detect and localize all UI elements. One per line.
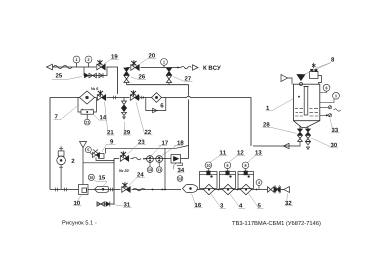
valve 32 (x-valve small): [274, 185, 280, 194]
caption: title: [232, 221, 320, 226]
hose (wavy) top-left: [53, 66, 72, 69]
filter 4 (diamond): [223, 184, 234, 195]
drain valve chain right (30): [306, 129, 311, 150]
filter 5 (diamond): [241, 184, 252, 195]
gauge under pump 18: [156, 162, 162, 172]
hose (wavy) before K VSU: [181, 66, 191, 69]
gauge 1: [73, 56, 80, 67]
check valve (open bowtie) outlet: [268, 187, 274, 192]
valve 23: [120, 151, 128, 161]
wire: bottom main line y=189.5: [50, 189, 181, 191]
canister 12: [220, 171, 236, 189]
valve 21 (x-valve on main line): [97, 90, 105, 100]
labels 17 18: [152, 141, 168, 156]
label 2: [72, 159, 75, 163]
valve 24 on bottom line: [122, 182, 130, 192]
labels 16 3 4 5: [192, 194, 203, 208]
label 8: [303, 57, 334, 75]
gauge on K VSU line: [161, 59, 168, 68]
junction dot: [177, 67, 179, 69]
drain valve chain left (28): [253, 129, 302, 147]
label 7: [54, 105, 80, 120]
valve 19: [97, 60, 105, 70]
valve 20: [131, 60, 139, 70]
text K VSU: [203, 66, 220, 70]
bypass check line below (label 25 chain): [84, 67, 107, 78]
fitting lower (to label 33): [320, 114, 332, 117]
label 32: [285, 194, 294, 206]
gauge (circled) below filter box: [84, 119, 90, 125]
label 6: [161, 103, 164, 107]
label 34 + gauge 14: [177, 168, 185, 182]
label 1 (tank): [266, 99, 294, 111]
junction ticks right of pump: [87, 188, 113, 192]
label 20: [140, 53, 157, 63]
tank standpipe: [303, 87, 308, 116]
pump 18: [156, 156, 163, 163]
flow arrow to K VSU: [193, 65, 199, 70]
hose (wavy) after valve 23: [133, 157, 141, 160]
labels 21 29 22: [105, 102, 115, 136]
wire: main line y=97.5: [50, 96, 251, 146]
filter 7 (diamond with bypass): [78, 91, 97, 112]
wire: upper link line y=148.3: [106, 146, 189, 154]
wire: fill line y=162.8: [83, 162, 114, 164]
canister 11: [200, 171, 218, 189]
flow arrow (open, pointing left) at left end: [47, 64, 53, 70]
wire: K VSU line: [127, 67, 182, 69]
wire: vertical x=114: [113, 159, 115, 205]
label 28: [263, 122, 298, 133]
caption: figure number: [62, 221, 96, 226]
gauge under pump 17: [147, 162, 153, 172]
union ticks on bottom line: [56, 188, 67, 192]
label 31: [113, 202, 132, 207]
junction dots bottom line: [152, 189, 154, 191]
hand pump (oval on line): [95, 186, 109, 192]
wire: trio line y=189.5: [197, 189, 284, 191]
gauge on canister 11: [205, 162, 212, 171]
valve unit 9: [93, 150, 115, 161]
gauge 2: [85, 56, 92, 67]
valve 26 (vertical chain below line start): [124, 68, 129, 85]
label 19: [104, 54, 119, 64]
outlet arrow (open, pointing left): [284, 187, 290, 193]
canister 13: [238, 171, 254, 189]
label 30: [311, 138, 339, 148]
label 33: [330, 119, 340, 133]
gauge at unit 9: [85, 147, 92, 155]
wire: left boundary vertical x=50: [49, 98, 51, 190]
tank level dashes: [295, 109, 318, 116]
text No 6 above filter: [91, 87, 98, 90]
component 8 (valve unit on tank top): [310, 63, 322, 85]
box 10 (on bottom line): [79, 185, 89, 195]
label 25: [52, 73, 82, 79]
pump 16 (teardrop): [183, 184, 198, 192]
label 15: [94, 175, 107, 186]
filter 3 (diamond): [204, 184, 215, 195]
label 10: [73, 196, 82, 206]
label 27: [173, 76, 193, 81]
tank interior dot: [298, 96, 300, 98]
label 24: [130, 172, 146, 185]
fill funnel + riser x=83: [80, 142, 87, 185]
wire: vertical x=188.5 from hop to ejector: [188, 100, 190, 159]
ejector box (unit with arrow): [171, 155, 183, 170]
wire: branch line y=158.5: [114, 158, 189, 160]
gauge on canister 13: [242, 162, 249, 171]
label 14: [94, 115, 107, 121]
gauge (right of tank, lower): [320, 92, 340, 102]
text No 20: [119, 169, 129, 172]
gauge on canister 12: [224, 162, 231, 171]
hose (wavy) after valve 24: [133, 188, 145, 191]
labels 11 12 13 (canisters): [210, 150, 228, 162]
label 26: [131, 74, 146, 79]
junction ticks: [114, 96, 116, 100]
valve 27 (vertical chain): [166, 68, 171, 85]
label 9: [102, 139, 116, 151]
gauge 4 on outlet: [256, 180, 262, 190]
wire: y=84.7 link line valve26..valve27..down pipe: [127, 85, 189, 96]
tank 1 body: [294, 84, 320, 129]
accumulator 2: [57, 146, 66, 189]
valve 29 (vertical drain chain below line): [122, 98, 127, 119]
pump 17: [147, 156, 154, 163]
breather (hatched triangle) on tank top: [297, 75, 305, 86]
wire: ejector suction vertical x=167: [164, 148, 166, 189]
wire: top-left main line y=67: [53, 67, 118, 94]
valve 22 (x-valve on main line): [130, 90, 138, 100]
gauge 15 (circled) with hand pump: [88, 174, 94, 180]
label 23: [128, 140, 147, 154]
fitting with hose (right of tank): [320, 106, 341, 111]
union ticks after valve 22: [140, 96, 144, 99]
check chain 31 (below bottom line): [97, 202, 115, 207]
drain flow arrow (open, left) on y=146: [284, 143, 290, 148]
gauge 6 (right of tank, upper): [320, 84, 330, 92]
filter 6 (diamond with bypass): [146, 93, 166, 113]
junction dots trio: [218, 189, 220, 191]
filler funnel on tank: [281, 75, 292, 85]
box on filter 7 bypass: [81, 109, 94, 120]
